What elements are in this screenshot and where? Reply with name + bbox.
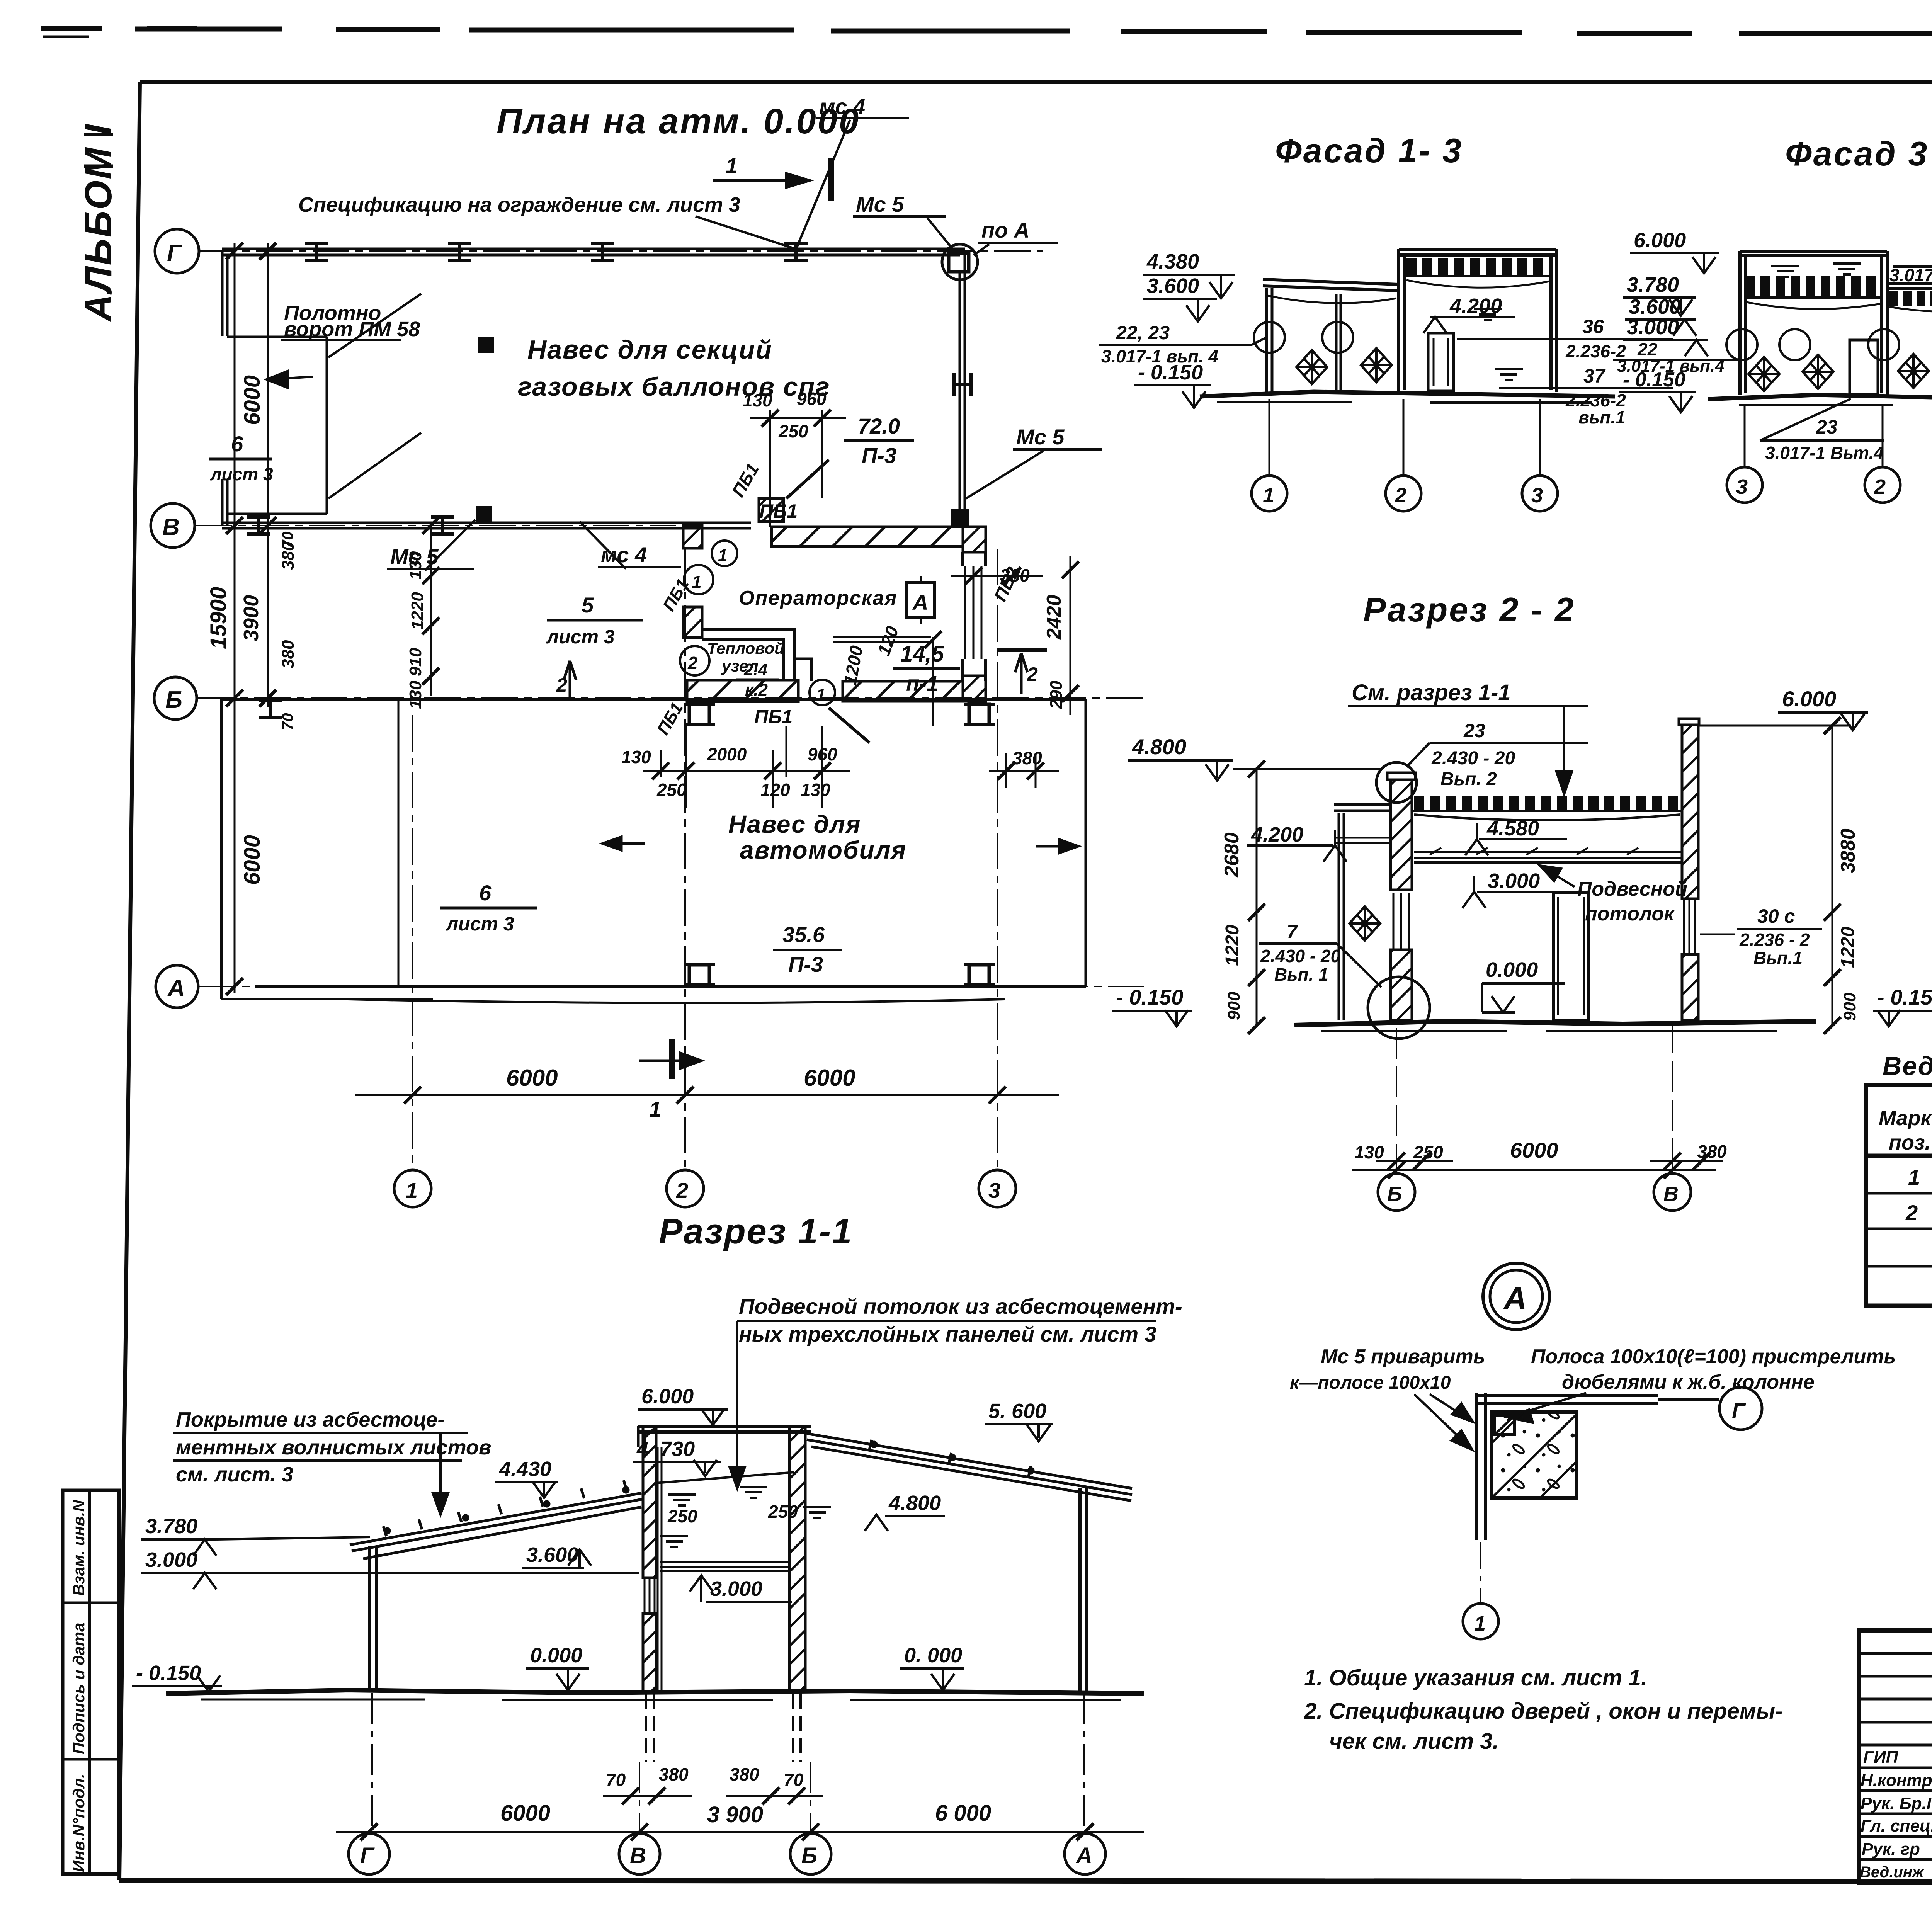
svg-text:250: 250: [656, 780, 687, 800]
svg-text:290: 290: [1047, 680, 1066, 709]
svg-text:3880: 3880: [1837, 828, 1859, 873]
svg-text:Операторская: Операторская: [739, 587, 897, 609]
svg-text:ных трехслойных панелей см.: ных трехслойных панелей см. лист 3: [739, 1322, 1156, 1346]
svg-text:6000: 6000: [240, 375, 265, 425]
operator top lintel hatched: [772, 527, 986, 552]
main block 2-3: [1399, 249, 1556, 392]
outline: [221, 699, 433, 999]
teplovoy uzel room: [702, 629, 794, 681]
svg-text:2: 2: [1027, 663, 1038, 685]
svg-text:0.000: 0.000: [530, 1644, 582, 1667]
bottom-left beam hatched: [687, 680, 798, 702]
svg-text:36: 36: [1582, 316, 1604, 337]
attic ground marks: [656, 1472, 794, 1483]
svg-text:6.000: 6.000: [1782, 687, 1836, 711]
svg-text:2000: 2000: [707, 744, 747, 764]
column grid lines 1 2 3: [413, 549, 997, 1170]
B wall hatched: [789, 1426, 805, 1692]
svg-text:Гл. спец.: Гл. спец.: [1861, 1816, 1932, 1835]
svg-text:35.6: 35.6: [782, 922, 825, 947]
svg-text:3.000: 3.000: [1627, 316, 1679, 339]
svg-text:План на атм. 0.000: План на атм. 0.000: [497, 102, 860, 141]
svg-text:3: 3: [988, 1178, 1000, 1202]
svg-text:15900: 15900: [206, 587, 231, 649]
svg-text:Мс 5: Мс 5: [856, 192, 904, 216]
svg-text:910: 910: [406, 648, 425, 676]
svg-text:130: 130: [621, 747, 651, 767]
svg-text:6000: 6000: [240, 835, 265, 885]
node A double circle: [1483, 1263, 1549, 1330]
fence post marks top: [305, 243, 328, 260]
svg-text:по А: по А: [981, 218, 1029, 242]
bottom dims: [1396, 1022, 1672, 1169]
svg-text:1: 1: [1908, 1165, 1920, 1189]
svg-text:250: 250: [1413, 1142, 1443, 1162]
upper canopy top edge: [222, 249, 965, 255]
svg-text:5. 600: 5. 600: [988, 1400, 1046, 1423]
ceiling slab 3.000: [660, 1562, 791, 1571]
svg-text:Н.контр.: Н.контр.: [1861, 1771, 1932, 1790]
axis circles: [349, 1833, 389, 1874]
svg-text:4.800: 4.800: [1132, 735, 1186, 759]
axis line G: [199, 250, 1043, 252]
axis line V: [195, 525, 676, 526]
corrugation band: [1406, 258, 1551, 276]
svg-text:3: 3: [1736, 475, 1748, 498]
middle block roof 6.000: [638, 1426, 811, 1432]
svg-text:А: А: [1075, 1843, 1092, 1868]
svg-text:130: 130: [801, 780, 830, 800]
svg-text:ментных волнистых листов: ментных волнистых листов: [176, 1436, 492, 1459]
svg-text:72.0: 72.0: [858, 414, 900, 438]
svg-text:- 0.150: - 0.150: [1138, 361, 1203, 384]
svg-text:3900: 3900: [240, 595, 263, 641]
svg-text:130: 130: [406, 680, 425, 709]
svg-text:А: А: [1503, 1281, 1527, 1316]
svg-text:2. Спецификацию дверей , окон: 2. Спецификацию дверей , окон и перемы-: [1304, 1699, 1782, 1724]
svg-text:Покрытие из асбестоце-: Покрытие из асбестоце-: [176, 1408, 444, 1431]
svg-text:4 .730: 4 .730: [636, 1437, 695, 1461]
svg-text:1220: 1220: [1838, 927, 1858, 968]
axis line A: [199, 986, 1144, 987]
svg-text:380: 380: [1697, 1141, 1727, 1162]
svg-text:дюбелями к ж.б. колонне: дюбелями к ж.б. колонне: [1562, 1371, 1815, 1393]
svg-text:3.000: 3.000: [1488, 869, 1540, 893]
svg-text:П-3: П-3: [788, 952, 823, 976]
svg-text:3 900: 3 900: [707, 1802, 763, 1827]
corrugated roof band: [1414, 796, 1681, 810]
svg-text:1220: 1220: [408, 592, 427, 630]
svg-text:70: 70: [279, 713, 296, 731]
circled 1 top door: [712, 541, 737, 566]
bottom dim line: [355, 1094, 1059, 1096]
svg-text:6: 6: [479, 881, 492, 905]
svg-text:Фасад 1- 3: Фасад 1- 3: [1275, 131, 1463, 170]
main block 3-2: [1740, 251, 1887, 395]
operator right wall with window PB2: [963, 552, 986, 681]
door between: [1850, 340, 1878, 394]
svg-text:2: 2: [676, 1178, 688, 1202]
A box: [907, 583, 935, 617]
left canopy slab: [1334, 804, 1391, 811]
svg-text:3.780: 3.780: [1627, 273, 1679, 296]
svg-text:В: В: [162, 514, 180, 541]
svg-text:Г: Г: [167, 240, 183, 267]
axis circle G: [155, 229, 199, 273]
svg-text:Г: Г: [360, 1843, 375, 1868]
svg-text:2680: 2680: [1221, 832, 1243, 878]
svg-text:См. разрез 1-1: См. разрез 1-1: [1352, 680, 1511, 705]
svg-text:Разрез 1-1: Разрез 1-1: [659, 1212, 853, 1251]
svg-text:к—полосе 100х10: к—полосе 100х10: [1290, 1372, 1451, 1393]
axis leaders + circles: [1269, 399, 1540, 476]
arrow line interior: [833, 637, 931, 642]
svg-text:6.000: 6.000: [641, 1385, 694, 1408]
svg-text:Вьп. 1: Вьп. 1: [1274, 964, 1328, 985]
svg-text:П-3: П-3: [862, 443, 896, 468]
svg-text:3.000: 3.000: [710, 1577, 762, 1600]
svg-text:1: 1: [718, 546, 727, 565]
svg-text:70: 70: [279, 532, 296, 549]
door: [1428, 333, 1454, 391]
svg-text:Тепловой: Тепловой: [707, 639, 784, 657]
left wall hatched blocks: [683, 526, 702, 548]
svg-text:мс 4: мс 4: [819, 94, 865, 119]
svg-text:к.2: к.2: [745, 680, 768, 699]
G column: [370, 1546, 376, 1692]
svg-text:Полоса 100х10(ℓ=100) пристрели: Полоса 100х10(ℓ=100) пристрелить: [1531, 1345, 1896, 1368]
svg-text:вьп.1: вьп.1: [1578, 407, 1626, 427]
left margin stamp boxes: [63, 1490, 119, 1874]
bottom dim line: [336, 1831, 1144, 1833]
svg-text:3.017-1 Вьт.4: 3.017-1 Вьт.4: [1765, 443, 1884, 463]
svg-text:газовых баллонов спг: газовых баллонов спг: [518, 372, 830, 401]
svg-text:автомобиля: автомобиля: [740, 836, 906, 864]
svg-text:Мс 5 приварить: Мс 5 приварить: [1321, 1345, 1485, 1368]
svg-text:130: 130: [1354, 1142, 1384, 1162]
left wall hatched: [1387, 773, 1415, 780]
suspended ceiling: [1414, 852, 1682, 862]
svg-text:Фасад 3 -1: Фасад 3 -1: [1785, 134, 1932, 173]
svg-text:2420: 2420: [1043, 595, 1065, 640]
svg-text:380: 380: [730, 1764, 759, 1784]
svg-text:7: 7: [1287, 921, 1298, 942]
svg-text:0.000: 0.000: [1486, 958, 1538, 981]
svg-text:ГИП: ГИП: [1863, 1748, 1899, 1767]
axis leaders + circles: [1745, 399, 1932, 467]
svg-text:2: 2: [1395, 484, 1406, 507]
svg-text:Подпись и дата: Подпись и дата: [70, 1623, 88, 1754]
svg-text:37: 37: [1583, 365, 1606, 387]
svg-text:В: В: [630, 1843, 646, 1868]
shrub left: [1349, 906, 1380, 940]
svg-text:- 0.150: - 0.150: [1877, 985, 1932, 1009]
shrubs: [1296, 350, 1327, 384]
right roof slope B to A: [807, 1434, 1132, 1501]
svg-text:Ведомость проемов дверей: Ведомость проемов дверей: [1883, 1051, 1932, 1081]
svg-text:70: 70: [784, 1770, 804, 1790]
svg-text:2: 2: [1905, 1201, 1918, 1225]
svg-text:лист 3: лист 3: [210, 464, 273, 484]
canopy right edge: [960, 255, 965, 526]
svg-text:см. лист. 3: см. лист. 3: [176, 1463, 293, 1486]
ground marks: [1474, 309, 1502, 320]
V-line fence posts: [222, 523, 751, 528]
axis circle B: [154, 677, 197, 719]
svg-text:6000: 6000: [1510, 1138, 1558, 1162]
V wall hatched: [643, 1426, 656, 1578]
svg-text:3.000: 3.000: [145, 1548, 197, 1571]
svg-text:2.236 - 2: 2.236 - 2: [1739, 930, 1810, 950]
svg-text:0. 000: 0. 000: [904, 1644, 962, 1667]
svg-text:ПБ1: ПБ1: [759, 500, 798, 522]
svg-text:6000: 6000: [804, 1065, 855, 1091]
svg-text:1: 1: [1474, 1612, 1486, 1635]
circled 1 left: [684, 565, 713, 594]
svg-text:Вед.инж: Вед.инж: [1860, 1864, 1925, 1881]
svg-text:250: 250: [667, 1506, 697, 1526]
right canopy: [1887, 284, 1932, 288]
section mark 2 right: [1015, 653, 1027, 694]
svg-text:4.580: 4.580: [1486, 817, 1539, 840]
circled 1 bottom: [810, 680, 835, 705]
operator bottom lintel hatched: [843, 681, 963, 701]
section mark 1 bottom: [669, 1039, 675, 1079]
axis circle V: [151, 503, 195, 548]
svg-text:380: 380: [659, 1764, 689, 1784]
svg-text:23: 23: [1816, 416, 1838, 438]
svg-text:6 000: 6 000: [935, 1801, 991, 1826]
vertical dim chains left: [235, 243, 268, 993]
svg-text:900: 900: [1225, 992, 1243, 1020]
svg-text:АЛЬБОМ I: АЛЬБОМ I: [77, 123, 119, 323]
sheet top scan broken line: [41, 28, 1932, 35]
svg-text:поз.: поз.: [1889, 1131, 1931, 1154]
axis circle A: [156, 965, 198, 1008]
svg-text:2: 2: [556, 674, 567, 696]
svg-text:Б: Б: [801, 1843, 817, 1868]
svg-text:Вьп.1: Вьп.1: [1753, 948, 1803, 968]
svg-text:чек см. лист 3.: чек см. лист 3.: [1329, 1729, 1499, 1754]
sheet frame: [140, 80, 1932, 84]
svg-text:Г: Г: [1732, 1398, 1746, 1423]
level 4.200 inside: [1430, 316, 1515, 318]
left roof slope G to V: [350, 1493, 642, 1559]
svg-text:3: 3: [1531, 484, 1543, 507]
svg-text:Подвесной: Подвесной: [1577, 878, 1687, 900]
svg-text:1: 1: [649, 1097, 661, 1121]
svg-text:1: 1: [816, 685, 825, 704]
svg-text:70: 70: [606, 1770, 626, 1790]
svg-text:6.000: 6.000: [1634, 229, 1686, 252]
node circle top: [1376, 762, 1417, 803]
svg-text:- 0.150: - 0.150: [1116, 985, 1183, 1009]
svg-text:250: 250: [778, 421, 808, 441]
marker circles: [1726, 329, 1757, 360]
svg-text:960: 960: [797, 389, 827, 409]
svg-text:Навес для секций: Навес для секций: [527, 335, 772, 364]
posts: [1267, 288, 1341, 393]
svg-text:Мс 5: Мс 5: [1016, 425, 1065, 449]
svg-text:6000: 6000: [506, 1065, 558, 1091]
svg-text:2.430 - 20: 2.430 - 20: [1260, 946, 1341, 966]
svg-text:22, 23: 22, 23: [1116, 322, 1170, 344]
door: [1553, 893, 1589, 1020]
svg-text:30 с: 30 с: [1757, 905, 1795, 927]
axis leader down to 1: [1480, 1542, 1481, 1603]
svg-text:2: 2: [1874, 475, 1886, 498]
svg-text:1. Общие указания см. л: 1. Общие указания см. лист 1.: [1304, 1665, 1647, 1690]
column squares: [684, 704, 715, 724]
svg-text:А: А: [167, 975, 185, 1002]
svg-text:Рук. Бр.I: Рук. Бр.I: [1861, 1794, 1932, 1813]
svg-text:120: 120: [760, 780, 790, 800]
axis line B: [197, 697, 1144, 699]
svg-text:1: 1: [692, 572, 702, 592]
ground line: [1294, 1021, 1816, 1025]
svg-text:3.780: 3.780: [145, 1515, 197, 1538]
corner node circle po A: [942, 244, 978, 280]
svg-text:Марка: Марка: [1879, 1107, 1932, 1130]
svg-text:900: 900: [1840, 992, 1859, 1021]
canopy left edge with gate: [222, 252, 227, 526]
svg-text:14,5: 14,5: [900, 641, 944, 667]
svg-text:1: 1: [726, 153, 738, 178]
ground line: [166, 1690, 1144, 1694]
svg-text:23: 23: [1463, 720, 1485, 742]
shrubs: [1748, 357, 1779, 391]
svg-text:- 0.150: - 0.150: [1623, 369, 1685, 391]
ground: [1708, 395, 1932, 399]
svg-text:4.200: 4.200: [1251, 823, 1303, 846]
below-ground column stubs: [646, 1693, 801, 1762]
svg-text:Вьп. 2: Вьп. 2: [1440, 769, 1497, 789]
svg-text:Инв.N°подл.: Инв.N°подл.: [70, 1774, 88, 1872]
svg-text:3.600: 3.600: [1147, 274, 1199, 298]
svg-text:3.017-1 Вьп4: 3.017-1 Вьп4: [1889, 265, 1932, 285]
svg-text:Рук. гр: Рук. гр: [1862, 1840, 1920, 1859]
svg-text:Б: Б: [1387, 1182, 1402, 1206]
node circle bottom: [1368, 977, 1430, 1039]
door swing bottom: [829, 708, 869, 743]
svg-text:5: 5: [582, 593, 594, 617]
svg-text:380: 380: [279, 640, 298, 668]
svg-text:лист 3: лист 3: [546, 626, 615, 648]
svg-text:потолок: потолок: [1585, 903, 1675, 925]
svg-text:Б: Б: [165, 687, 182, 713]
3.000 level: [1463, 892, 1486, 908]
svg-text:Спецификацию на ограждение: Спецификацию на ограждение см. лист 3: [298, 193, 740, 216]
svg-text:2: 2: [687, 653, 698, 673]
marker circles: [1254, 322, 1285, 353]
leader to G circle: [1658, 1398, 1719, 1401]
svg-text:130: 130: [743, 390, 772, 410]
svg-text:4.800: 4.800: [888, 1492, 941, 1515]
svg-text:6: 6: [231, 432, 243, 456]
svg-text:1220: 1220: [1222, 925, 1243, 966]
axis circles: [1378, 1173, 1415, 1211]
svg-text:2.430 - 20: 2.430 - 20: [1431, 748, 1515, 769]
svg-text:лист 3: лист 3: [446, 913, 514, 935]
left canopy roof: [1263, 279, 1398, 291]
operator block: hatched column left of door: [759, 498, 784, 522]
grid circles 1 2 3: [394, 1170, 431, 1207]
gate leaf: [227, 337, 327, 514]
svg-text:- 0.150: - 0.150: [136, 1662, 201, 1685]
ground line: [1200, 392, 1615, 396]
svg-text:Подвесной потолок из асбест: Подвесной потолок из асбестоцемент-: [739, 1294, 1182, 1318]
svg-text:Разрез 2 - 2: Разрез 2 - 2: [1363, 590, 1575, 629]
svg-text:380: 380: [1012, 748, 1042, 768]
svg-text:2.4: 2.4: [743, 660, 767, 679]
svg-text:4.430: 4.430: [499, 1458, 551, 1481]
A column: [1080, 1488, 1087, 1692]
direction arrows: [603, 837, 645, 850]
svg-text:6000: 6000: [500, 1801, 550, 1826]
svg-text:3.600: 3.600: [1629, 295, 1681, 318]
svg-text:4.380: 4.380: [1146, 250, 1199, 273]
circled 2 left: [680, 646, 709, 675]
node detail: angle bars: [1477, 1393, 1486, 1540]
svg-text:ворот ПМ 58: ворот ПМ 58: [284, 318, 420, 341]
svg-text:В: В: [1663, 1182, 1679, 1206]
svg-text:1: 1: [1263, 484, 1274, 507]
concrete column square: [1492, 1412, 1577, 1498]
svg-text:ПБ1: ПБ1: [754, 706, 793, 728]
svg-text:мс 4: мс 4: [601, 543, 647, 567]
door swing top: [786, 460, 829, 498]
svg-text:Навес для: Навес для: [728, 810, 861, 838]
signature grid: [1859, 1631, 1932, 1883]
svg-text:1: 1: [406, 1178, 418, 1202]
right wall hatched: [1679, 719, 1699, 725]
svg-text:А: А: [912, 590, 928, 614]
4.580 level: [1465, 839, 1488, 855]
svg-text:Взам. инв.N: Взам. инв.N: [70, 1499, 88, 1596]
